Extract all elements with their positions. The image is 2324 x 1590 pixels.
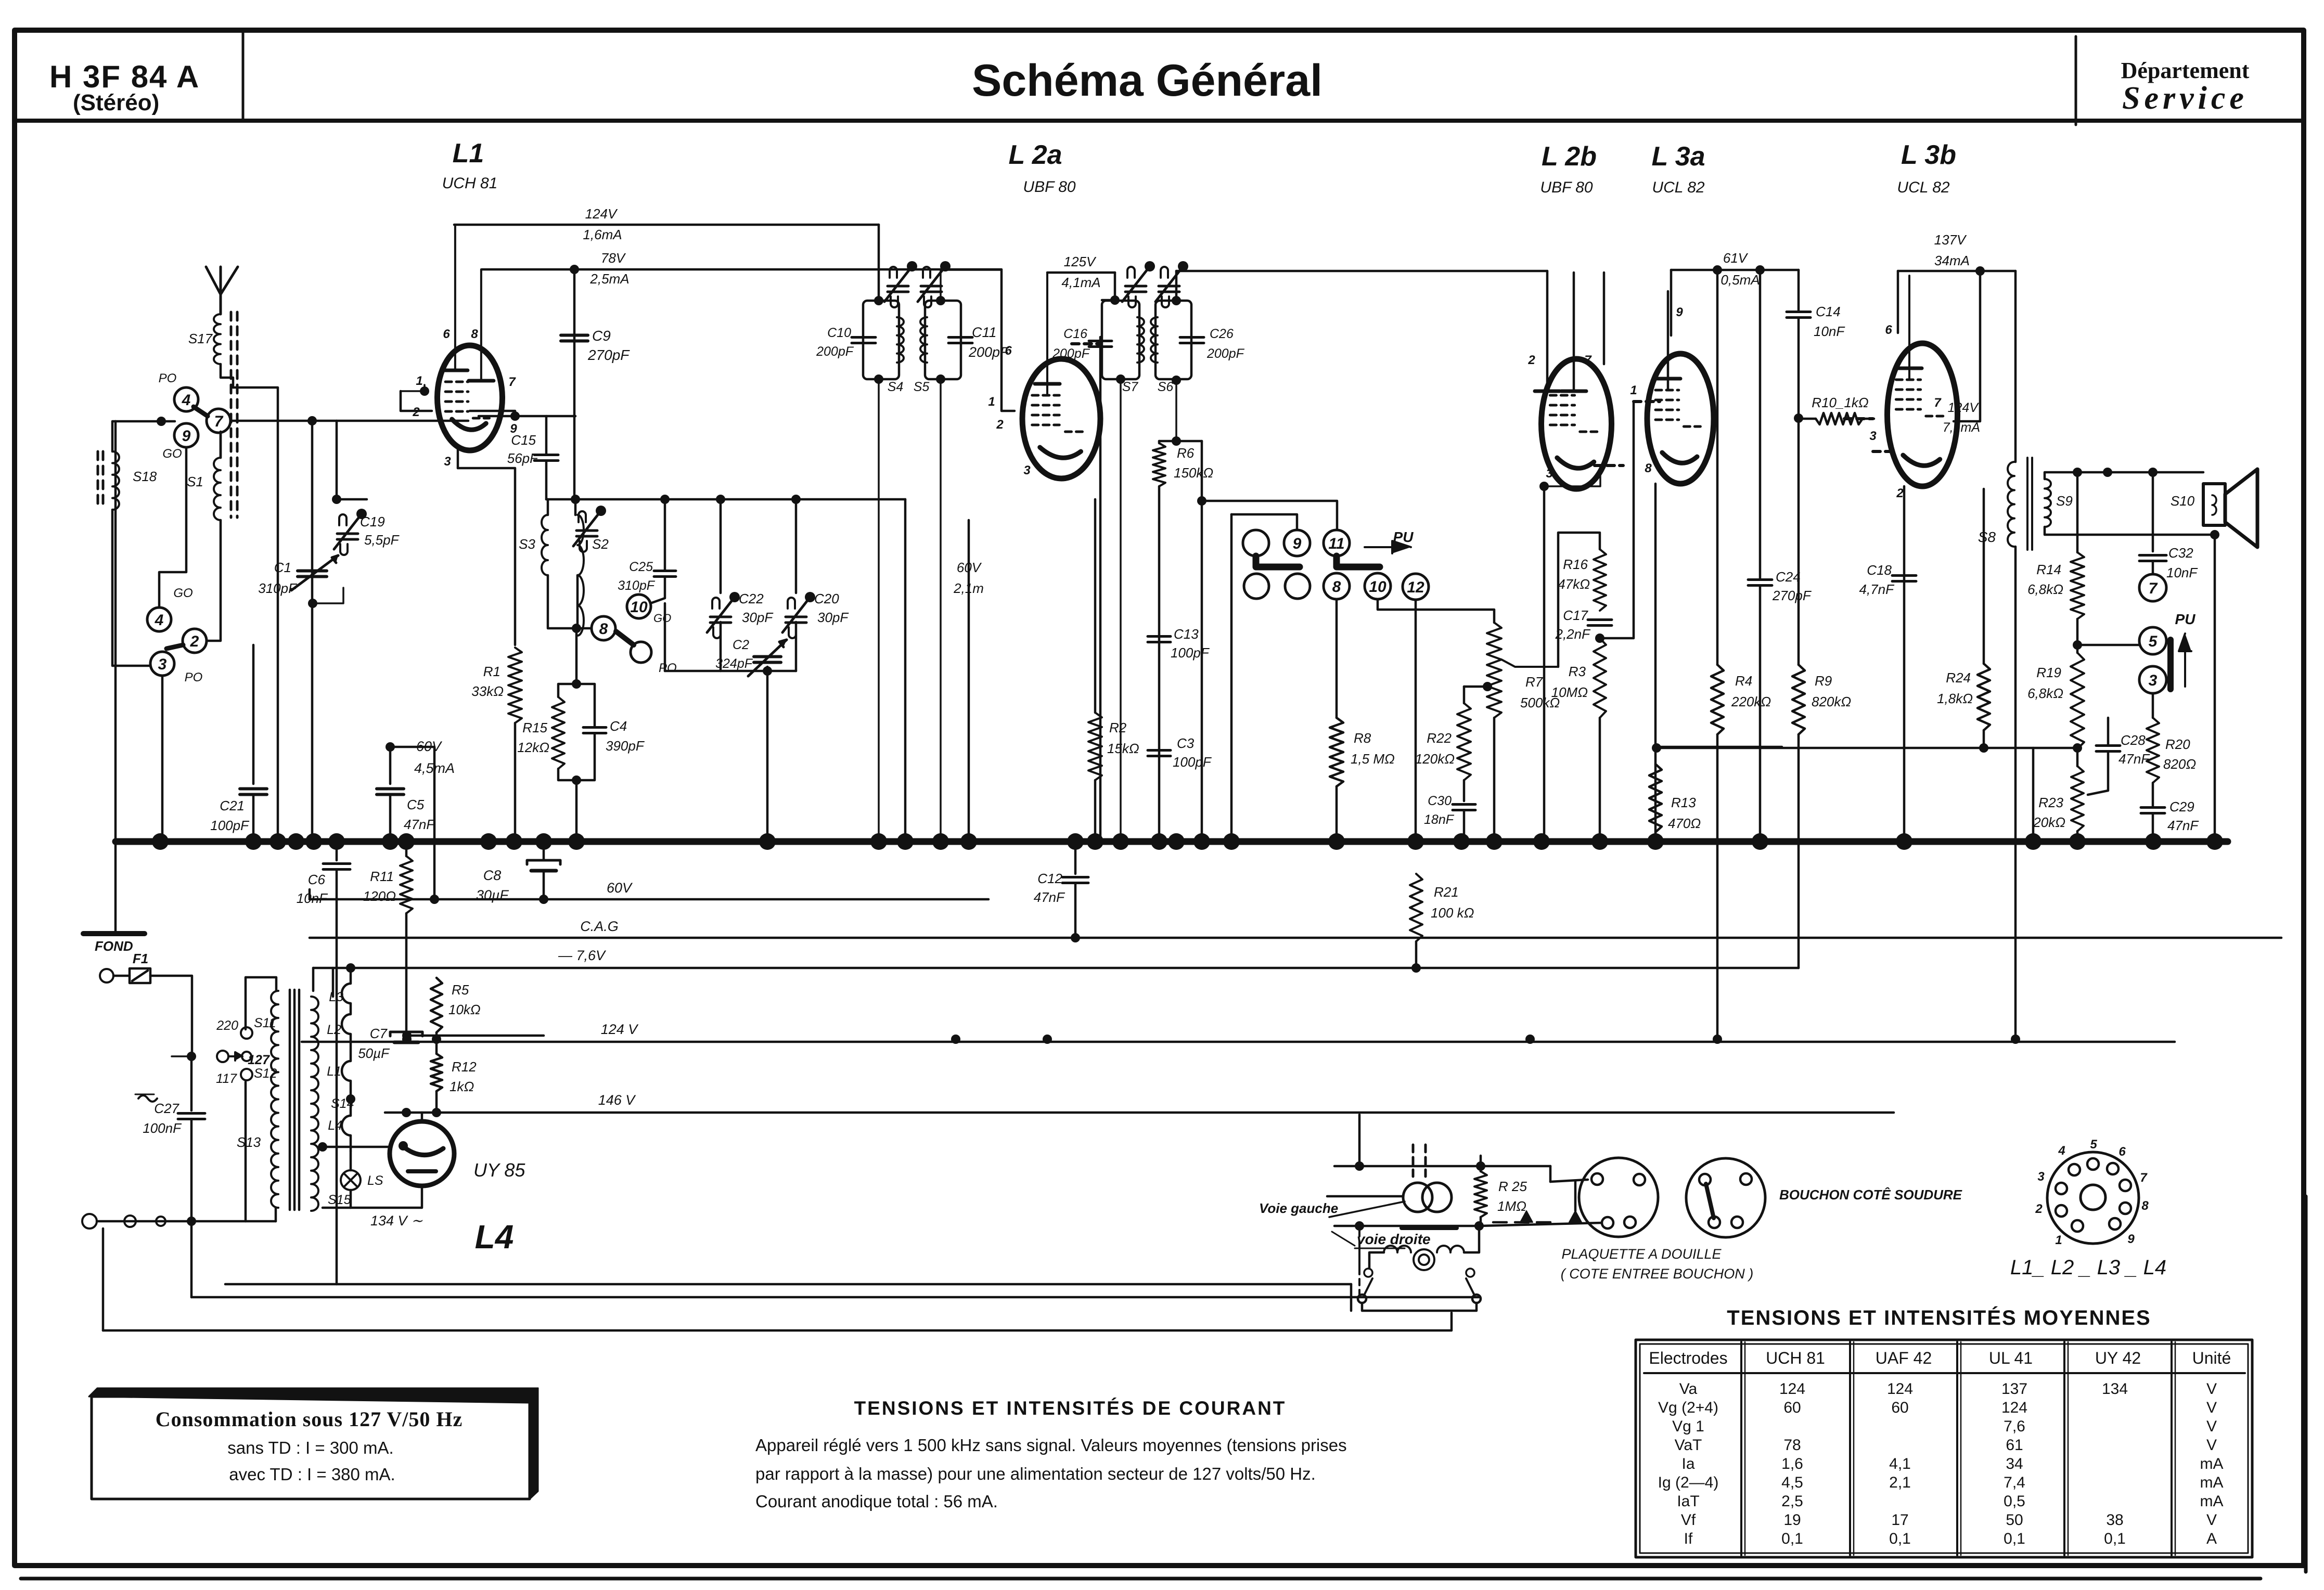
svg-text:10kΩ: 10kΩ bbox=[448, 1002, 481, 1017]
wire pin3 junction bbox=[1539, 482, 1549, 491]
wire to plaquette top pin bbox=[1550, 1180, 1588, 1182]
svg-text:4: 4 bbox=[182, 392, 191, 409]
wire S1 top to contact 7 bbox=[220, 432, 222, 458]
svg-text:F1: F1 bbox=[133, 951, 148, 966]
wire C17 junction to L3a grid bbox=[1600, 402, 1634, 638]
svg-text:C26: C26 bbox=[1210, 327, 1234, 341]
svg-text:38: 38 bbox=[2106, 1511, 2123, 1529]
svg-text:200pF: 200pF bbox=[968, 344, 1009, 360]
svg-text:0,5mA: 0,5mA bbox=[1720, 272, 1760, 288]
svg-text:Va: Va bbox=[1679, 1380, 1698, 1398]
diode dashes L2a bbox=[1072, 342, 1100, 345]
R7 wiper bbox=[1501, 660, 1558, 667]
svg-text:1MΩ: 1MΩ bbox=[1497, 1198, 1526, 1214]
svg-text:( COTE ENTREE BOUCHON ): ( COTE ENTREE BOUCHON ) bbox=[1561, 1266, 1754, 1282]
svg-text:3: 3 bbox=[2037, 1170, 2045, 1184]
svg-text:2: 2 bbox=[996, 418, 1004, 432]
svg-text:R15: R15 bbox=[522, 720, 547, 735]
svg-text:UY 42: UY 42 bbox=[2095, 1349, 2141, 1367]
dashed link to plaquette bbox=[1493, 1221, 1556, 1224]
svg-text:137: 137 bbox=[2001, 1380, 2027, 1398]
variable capacitor C1 bbox=[298, 570, 327, 573]
ground return line bottom bbox=[102, 1229, 105, 1330]
wire to contact 9 bbox=[1231, 514, 1297, 530]
svg-text:mA: mA bbox=[2200, 1474, 2224, 1491]
svg-text:L4: L4 bbox=[475, 1218, 514, 1256]
svg-text:PO: PO bbox=[159, 371, 177, 385]
plaquette circle bbox=[1579, 1158, 1658, 1237]
resistor R25 1M bbox=[1480, 1156, 1482, 1171]
screen rail 78V bbox=[482, 268, 1001, 271]
potentiometer R7 500k bbox=[1487, 623, 1501, 718]
wire R19 to R23 bbox=[2076, 748, 2079, 766]
svg-text:C28: C28 bbox=[2121, 732, 2146, 748]
bus junction dots bbox=[152, 833, 169, 850]
svg-text:L 3a: L 3a bbox=[1651, 141, 1705, 172]
svg-text:220kΩ: 220kΩ bbox=[1731, 694, 1771, 709]
pin 9 lead L2b bbox=[1603, 273, 1606, 364]
coil S2 bbox=[574, 499, 577, 515]
svg-text:1kΩ: 1kΩ bbox=[450, 1079, 474, 1094]
contact 2 bbox=[183, 629, 207, 653]
capacitor C26 200pF bbox=[1180, 336, 1204, 339]
coil S17 bbox=[214, 314, 221, 364]
svg-text:PU: PU bbox=[2175, 611, 2196, 627]
svg-text:C7: C7 bbox=[370, 1026, 388, 1041]
svg-text:LS: LS bbox=[367, 1173, 383, 1188]
wire rail to L3b top bbox=[1897, 271, 1899, 333]
svg-text:sans TD : I = 300 mA.: sans TD : I = 300 mA. bbox=[227, 1438, 393, 1457]
svg-text:Consommation sous 127 V/50: Consommation sous 127 V/50 Hz bbox=[156, 1407, 463, 1431]
svg-text:120Ω: 120Ω bbox=[363, 888, 396, 904]
wire UY85 anode up bbox=[421, 1113, 423, 1121]
wire coils join to contact 8 bbox=[548, 575, 591, 628]
cathode bias line bbox=[1657, 747, 2077, 749]
svg-text:0,1: 0,1 bbox=[1889, 1530, 1911, 1547]
wire pin3 down to bus bbox=[1543, 486, 1546, 842]
capacitor C9 bbox=[573, 269, 576, 499]
wire junction to C19/C1 bbox=[337, 498, 367, 501]
wire chokes to C7 bbox=[346, 1094, 355, 1104]
line 124V bbox=[302, 1041, 2175, 1043]
wire contact10 to volume bbox=[1378, 599, 1494, 623]
svg-text:47nF: 47nF bbox=[1034, 889, 1065, 905]
svg-text:R14: R14 bbox=[2036, 562, 2061, 577]
svg-text:V: V bbox=[2206, 1380, 2217, 1398]
svg-text:VaT: VaT bbox=[1675, 1437, 1702, 1454]
svg-text:1: 1 bbox=[2055, 1233, 2062, 1247]
wire C2 column to bus bbox=[766, 671, 769, 842]
svg-text:6: 6 bbox=[2118, 1145, 2126, 1159]
rail 61V bbox=[1671, 269, 1799, 272]
svg-text:V: V bbox=[2206, 1511, 2217, 1529]
capacitor C7 50uF bbox=[390, 1032, 422, 1036]
coil S3 bbox=[547, 499, 549, 515]
svg-text:2: 2 bbox=[412, 405, 420, 419]
svg-text:4,1mA: 4,1mA bbox=[1061, 275, 1100, 290]
svg-text:3: 3 bbox=[158, 656, 167, 673]
svg-text:R11: R11 bbox=[370, 869, 394, 884]
wire secondary top riser bbox=[332, 968, 335, 997]
switch bar PU output bbox=[2167, 640, 2174, 689]
transformer core S8/S9 bbox=[2026, 458, 2028, 550]
trimmer S6 bbox=[1159, 285, 1179, 288]
svg-text:C14: C14 bbox=[1816, 304, 1841, 319]
resistor R10 1k horizontal bbox=[1799, 418, 1816, 420]
svg-text:R21: R21 bbox=[1434, 884, 1459, 900]
grid dash L3a bbox=[1634, 400, 1660, 403]
svg-text:100pF: 100pF bbox=[1173, 754, 1212, 770]
svg-text:0,1: 0,1 bbox=[2004, 1530, 2025, 1547]
svg-text:C19: C19 bbox=[360, 514, 385, 529]
pin 9 wire bbox=[479, 415, 575, 418]
svg-text:324pF: 324pF bbox=[715, 656, 753, 671]
svg-text:2: 2 bbox=[2035, 1202, 2043, 1216]
svg-text:34mA: 34mA bbox=[1934, 253, 1970, 268]
svg-text:60: 60 bbox=[1783, 1399, 1801, 1416]
AC symbol bbox=[138, 1095, 157, 1102]
resistor R21 100k bbox=[1410, 874, 1422, 941]
resistor R20 820 bbox=[2147, 718, 2159, 783]
svg-text:C10: C10 bbox=[827, 326, 851, 340]
capacitor C32 10nF bbox=[2152, 472, 2154, 551]
svg-text:V: V bbox=[2206, 1437, 2217, 1454]
svg-text:— 7,6V: — 7,6V bbox=[558, 948, 607, 963]
svg-text:7: 7 bbox=[1584, 353, 1592, 367]
terminal 220 S11 bbox=[241, 1027, 252, 1039]
svg-text:2: 2 bbox=[1527, 353, 1535, 367]
wire rail to L3a top bbox=[1670, 270, 1673, 335]
svg-text:20kΩ: 20kΩ bbox=[2033, 815, 2065, 830]
svg-text:100pF: 100pF bbox=[210, 818, 250, 833]
bouchon circle bbox=[1686, 1158, 1765, 1237]
capacitor C6 10nF bbox=[336, 842, 338, 860]
svg-text:L 3b: L 3b bbox=[1901, 140, 1956, 170]
svg-text:100 kΩ: 100 kΩ bbox=[1431, 905, 1474, 921]
capacitor C3 100pF bbox=[1148, 749, 1171, 752]
wire oscillator grid line bbox=[575, 498, 905, 501]
wire contact8 down to R8 bbox=[1336, 599, 1338, 718]
pin 2 lead L2b bbox=[1546, 271, 1549, 391]
switch bar group right bbox=[1337, 556, 1380, 567]
svg-text:H 3F 84 A: H 3F 84 A bbox=[49, 59, 200, 94]
rail to L2b grid bbox=[1176, 270, 1547, 273]
resistor R2 15k bbox=[1094, 499, 1097, 713]
svg-text:3: 3 bbox=[1546, 467, 1553, 481]
wire S4 bottom down to bus bbox=[874, 374, 883, 384]
resistor R23 20k bbox=[2071, 766, 2084, 831]
svg-text:2,1: 2,1 bbox=[1889, 1474, 1911, 1491]
line 60V bbox=[310, 898, 988, 901]
capacitor C4 390pF bbox=[576, 684, 595, 727]
left vertical wire to ground bus bbox=[114, 421, 117, 842]
svg-text:R4: R4 bbox=[1735, 673, 1752, 689]
contact 8 bbox=[592, 616, 615, 640]
svg-text:C.A.G: C.A.G bbox=[580, 919, 619, 934]
svg-text:47kΩ: 47kΩ bbox=[1558, 576, 1590, 592]
wire speaker return bbox=[2214, 535, 2216, 842]
svg-text:Electrodes: Electrodes bbox=[1649, 1349, 1727, 1367]
consumption box shadow bbox=[89, 1388, 538, 1403]
trimmer S7 bbox=[1125, 285, 1146, 288]
svg-text:6: 6 bbox=[1005, 344, 1012, 358]
lamp LS bbox=[341, 1170, 361, 1190]
rectifier tube UY85 bbox=[390, 1121, 454, 1186]
svg-text:V: V bbox=[2206, 1418, 2217, 1435]
wire contact3 to R20 bbox=[2152, 693, 2154, 718]
switch bar group left bbox=[1256, 556, 1300, 567]
AC input terminal bbox=[100, 969, 113, 983]
svg-text:200pF: 200pF bbox=[1052, 346, 1090, 361]
svg-text:R9: R9 bbox=[1815, 673, 1832, 689]
svg-text:0,5: 0,5 bbox=[2004, 1493, 2025, 1510]
svg-text:33kΩ: 33kΩ bbox=[471, 683, 504, 699]
trimmer S4 bbox=[888, 285, 908, 288]
arrow PU output bbox=[2184, 640, 2186, 687]
svg-text:4,7nF: 4,7nF bbox=[1859, 581, 1895, 597]
svg-text:137V: 137V bbox=[1934, 232, 1967, 248]
svg-text:R19: R19 bbox=[2036, 665, 2061, 680]
wire F1 down to selector bbox=[150, 976, 192, 1056]
contact 7 output bbox=[2139, 574, 2166, 601]
svg-text:Ig (2—4): Ig (2—4) bbox=[1658, 1474, 1719, 1491]
svg-text:7: 7 bbox=[2140, 1171, 2148, 1185]
line voie droite feed bbox=[191, 1296, 1479, 1299]
svg-text:UY 85: UY 85 bbox=[473, 1159, 525, 1181]
table header underline bbox=[1644, 1372, 2245, 1374]
svg-text:8: 8 bbox=[1332, 578, 1341, 596]
svg-text:Courant anodique total : 56 mA: Courant anodique total : 56 mA. bbox=[755, 1492, 998, 1511]
svg-text:R5: R5 bbox=[452, 982, 469, 998]
pickup coils bbox=[1403, 1183, 1432, 1212]
svg-text:200pF: 200pF bbox=[1206, 346, 1245, 361]
svg-text:6,8kΩ: 6,8kΩ bbox=[2027, 686, 2063, 701]
svg-text:L3: L3 bbox=[329, 990, 343, 1004]
table frame bbox=[1636, 1340, 2252, 1557]
svg-text:S1: S1 bbox=[187, 474, 203, 489]
svg-text:124: 124 bbox=[2001, 1399, 2027, 1416]
wire choke chain to lamp bbox=[350, 1151, 352, 1170]
socket pin holes bbox=[2087, 1158, 2099, 1170]
resistor R6 150k bbox=[1158, 441, 1161, 443]
resistor R24 1,8k bbox=[1983, 489, 1985, 664]
svg-text:L1: L1 bbox=[327, 1064, 341, 1079]
capacitor C18 4,7nF bbox=[1892, 574, 1916, 577]
trimmer C19 bbox=[337, 533, 358, 535]
svg-text:2: 2 bbox=[190, 633, 199, 650]
wire 9 down to lower switch bbox=[159, 447, 186, 607]
grid dash L3b pentode bbox=[1844, 417, 1873, 420]
svg-text:C21: C21 bbox=[220, 798, 245, 813]
wire grid top junction bbox=[336, 421, 338, 499]
svg-text:1: 1 bbox=[416, 374, 422, 388]
svg-text:UBF 80: UBF 80 bbox=[1540, 179, 1593, 196]
svg-text:60: 60 bbox=[1891, 1399, 1908, 1416]
wire contact2 to S1 bottom bbox=[207, 520, 221, 641]
svg-text:L4: L4 bbox=[328, 1118, 342, 1133]
terminal 127 S12 bbox=[241, 1069, 252, 1080]
svg-text:Vf: Vf bbox=[1681, 1511, 1696, 1529]
svg-text:S8: S8 bbox=[1978, 529, 1996, 545]
svg-text:L2: L2 bbox=[327, 1023, 341, 1037]
svg-text:UCH 81: UCH 81 bbox=[442, 175, 498, 192]
svg-text:7: 7 bbox=[214, 413, 224, 430]
svg-text:par rapport à la masse) pour u: par rapport à la masse) pour une aliment… bbox=[755, 1464, 1316, 1483]
svg-text:UL 41: UL 41 bbox=[1989, 1349, 2033, 1367]
pin 7 lead L2b bbox=[1573, 273, 1575, 391]
svg-text:R23: R23 bbox=[2038, 795, 2063, 810]
svg-text:78: 78 bbox=[1783, 1437, 1801, 1454]
wire cathode down bbox=[1903, 486, 1906, 842]
contact 9 bbox=[1284, 530, 1310, 556]
svg-text:3: 3 bbox=[444, 455, 451, 469]
svg-text:C13: C13 bbox=[1174, 626, 1199, 642]
svg-text:124: 124 bbox=[1887, 1380, 1913, 1398]
svg-text:C30: C30 bbox=[1428, 794, 1452, 808]
svg-text:78V: 78V bbox=[601, 250, 626, 266]
svg-text:UAF 42: UAF 42 bbox=[1876, 1349, 1932, 1367]
svg-text:Appareil réglé vers 1 500 kHz: Appareil réglé vers 1 500 kHz sans signa… bbox=[755, 1436, 1347, 1455]
svg-text:4: 4 bbox=[2058, 1144, 2065, 1158]
svg-text:GO: GO bbox=[162, 447, 182, 461]
svg-text:C4: C4 bbox=[610, 718, 627, 734]
svg-text:C12: C12 bbox=[1037, 871, 1062, 886]
svg-text:Unité: Unité bbox=[2192, 1349, 2231, 1367]
svg-text:47nF: 47nF bbox=[2118, 751, 2150, 767]
wire lamp chain bbox=[350, 1190, 352, 1208]
resistor R4 220k bbox=[1716, 270, 1719, 665]
svg-text:9: 9 bbox=[2127, 1232, 2135, 1246]
wire S9 top bbox=[2045, 472, 2203, 479]
pickup head core dashes bbox=[1412, 1145, 1415, 1177]
wire R23 junction left bbox=[2032, 748, 2035, 842]
svg-text:mA: mA bbox=[2200, 1493, 2224, 1510]
svg-text:C27: C27 bbox=[154, 1101, 179, 1116]
capacitor C28 47nF bbox=[2107, 718, 2110, 745]
tube UBF80 L2a bbox=[1022, 359, 1100, 479]
grid leak wire pin7 bbox=[470, 411, 515, 416]
svg-text:7: 7 bbox=[2149, 580, 2158, 597]
wire R13 junction to right bbox=[1655, 746, 1782, 748]
svg-text:0,1: 0,1 bbox=[1781, 1530, 1803, 1547]
svg-text:146 V: 146 V bbox=[598, 1092, 637, 1108]
svg-text:GO: GO bbox=[173, 586, 192, 600]
svg-text:0,1: 0,1 bbox=[2104, 1530, 2126, 1547]
wire S9 bottom bbox=[2045, 527, 2215, 535]
svg-text:R2: R2 bbox=[1109, 720, 1127, 735]
svg-text:6: 6 bbox=[443, 327, 450, 341]
svg-text:IaT: IaT bbox=[1677, 1493, 1699, 1510]
padder bottom wire bbox=[665, 670, 796, 673]
svg-text:50µF: 50µF bbox=[358, 1045, 390, 1061]
svg-text:S6: S6 bbox=[1158, 380, 1174, 394]
bouchon shorting bar bbox=[1706, 1184, 1714, 1218]
bottom AC terminals bbox=[82, 1214, 97, 1229]
svg-text:10: 10 bbox=[630, 599, 648, 616]
svg-text:9: 9 bbox=[182, 428, 191, 445]
svg-text:PO: PO bbox=[659, 661, 677, 675]
svg-text:19: 19 bbox=[1783, 1511, 1801, 1529]
svg-text:4,5: 4,5 bbox=[1781, 1474, 1803, 1491]
svg-text:100nF: 100nF bbox=[143, 1120, 182, 1136]
svg-text:5,5pF: 5,5pF bbox=[364, 532, 400, 548]
trimmer C20 bbox=[795, 499, 798, 593]
svg-text:124 V: 124 V bbox=[601, 1022, 639, 1037]
svg-text:7: 7 bbox=[508, 375, 516, 389]
svg-text:C25: C25 bbox=[629, 560, 653, 574]
capacitor C11 200pF bbox=[948, 336, 972, 339]
svg-text:R16: R16 bbox=[1563, 557, 1588, 572]
vertical phono dashed bbox=[1358, 1230, 1360, 1269]
svg-text:L1: L1 bbox=[453, 138, 484, 169]
svg-text:4: 4 bbox=[155, 612, 164, 629]
rail 125V bbox=[1047, 272, 1115, 274]
socket circle L1-L4 bbox=[2047, 1152, 2139, 1244]
svg-text:S7: S7 bbox=[1122, 380, 1139, 394]
svg-text:voie droite: voie droite bbox=[1357, 1231, 1431, 1247]
svg-text:7,4: 7,4 bbox=[2004, 1474, 2025, 1491]
line 146V bbox=[385, 1111, 1894, 1114]
resistor R19 6,8k bbox=[2071, 653, 2084, 749]
wire antenna coil to core bbox=[221, 364, 233, 387]
svg-text:18nF: 18nF bbox=[1424, 812, 1455, 827]
svg-text:270pF: 270pF bbox=[587, 347, 630, 363]
svg-text:820Ω: 820Ω bbox=[2163, 756, 2196, 772]
capacitor C27 100nF bbox=[178, 1112, 205, 1115]
capacitor C16 bbox=[1099, 337, 1102, 344]
svg-text:2,5mA: 2,5mA bbox=[589, 271, 629, 287]
svg-text:220: 220 bbox=[216, 1018, 238, 1033]
consumption box bbox=[92, 1397, 530, 1499]
svg-text:S3: S3 bbox=[519, 536, 535, 552]
svg-text:6,8kΩ: 6,8kΩ bbox=[2027, 581, 2063, 597]
svg-text:R13: R13 bbox=[1671, 795, 1696, 810]
svg-text:UCL 82: UCL 82 bbox=[1897, 179, 1949, 196]
trimmer S5 bbox=[921, 285, 942, 288]
wire S12 down bbox=[245, 1082, 247, 1221]
wire R13 column bbox=[1654, 484, 1657, 842]
svg-text:56pF: 56pF bbox=[507, 450, 539, 466]
svg-text:134: 134 bbox=[2102, 1380, 2128, 1398]
tube UCL82 L3b bbox=[1888, 343, 1958, 486]
wire 124V rail to S4 bbox=[878, 225, 880, 301]
svg-text:2,5: 2,5 bbox=[1781, 1493, 1803, 1510]
vertical wire x534 bbox=[233, 387, 278, 842]
voltage selector plug bbox=[187, 1052, 196, 1061]
wire selector down bbox=[190, 1056, 193, 1110]
svg-text:A: A bbox=[2206, 1530, 2217, 1547]
antenna bbox=[206, 267, 221, 314]
svg-text:TENSIONS ET INTENSITÉS MOYE: TENSIONS ET INTENSITÉS MOYENNES bbox=[1727, 1306, 2151, 1329]
svg-text:FOND: FOND bbox=[95, 938, 133, 954]
svg-text:8: 8 bbox=[1645, 461, 1652, 475]
svg-text:avec TD : I = 380 mA.: avec TD : I = 380 mA. bbox=[229, 1465, 395, 1484]
capacitor C21 100pF bbox=[252, 645, 255, 784]
svg-text:PLAQUETTE A DOUILLE: PLAQUETTE A DOUILLE bbox=[1561, 1246, 1722, 1262]
svg-text:Département: Département bbox=[2121, 58, 2250, 83]
wire junction down to R15/C4 bbox=[575, 628, 578, 684]
contact 9 bbox=[174, 423, 198, 447]
wire 134V row bbox=[323, 1186, 422, 1208]
svg-text:C16: C16 bbox=[1063, 327, 1087, 341]
TD switch contacts bbox=[1364, 1269, 1372, 1277]
svg-text:C1: C1 bbox=[274, 560, 291, 575]
svg-text:1,8kΩ: 1,8kΩ bbox=[1937, 691, 1973, 706]
antenna secondary to dashed core bbox=[220, 432, 222, 458]
ground bus bbox=[115, 838, 2228, 845]
svg-text:470Ω: 470Ω bbox=[1668, 816, 1701, 831]
contact 10 GO bbox=[627, 594, 651, 618]
